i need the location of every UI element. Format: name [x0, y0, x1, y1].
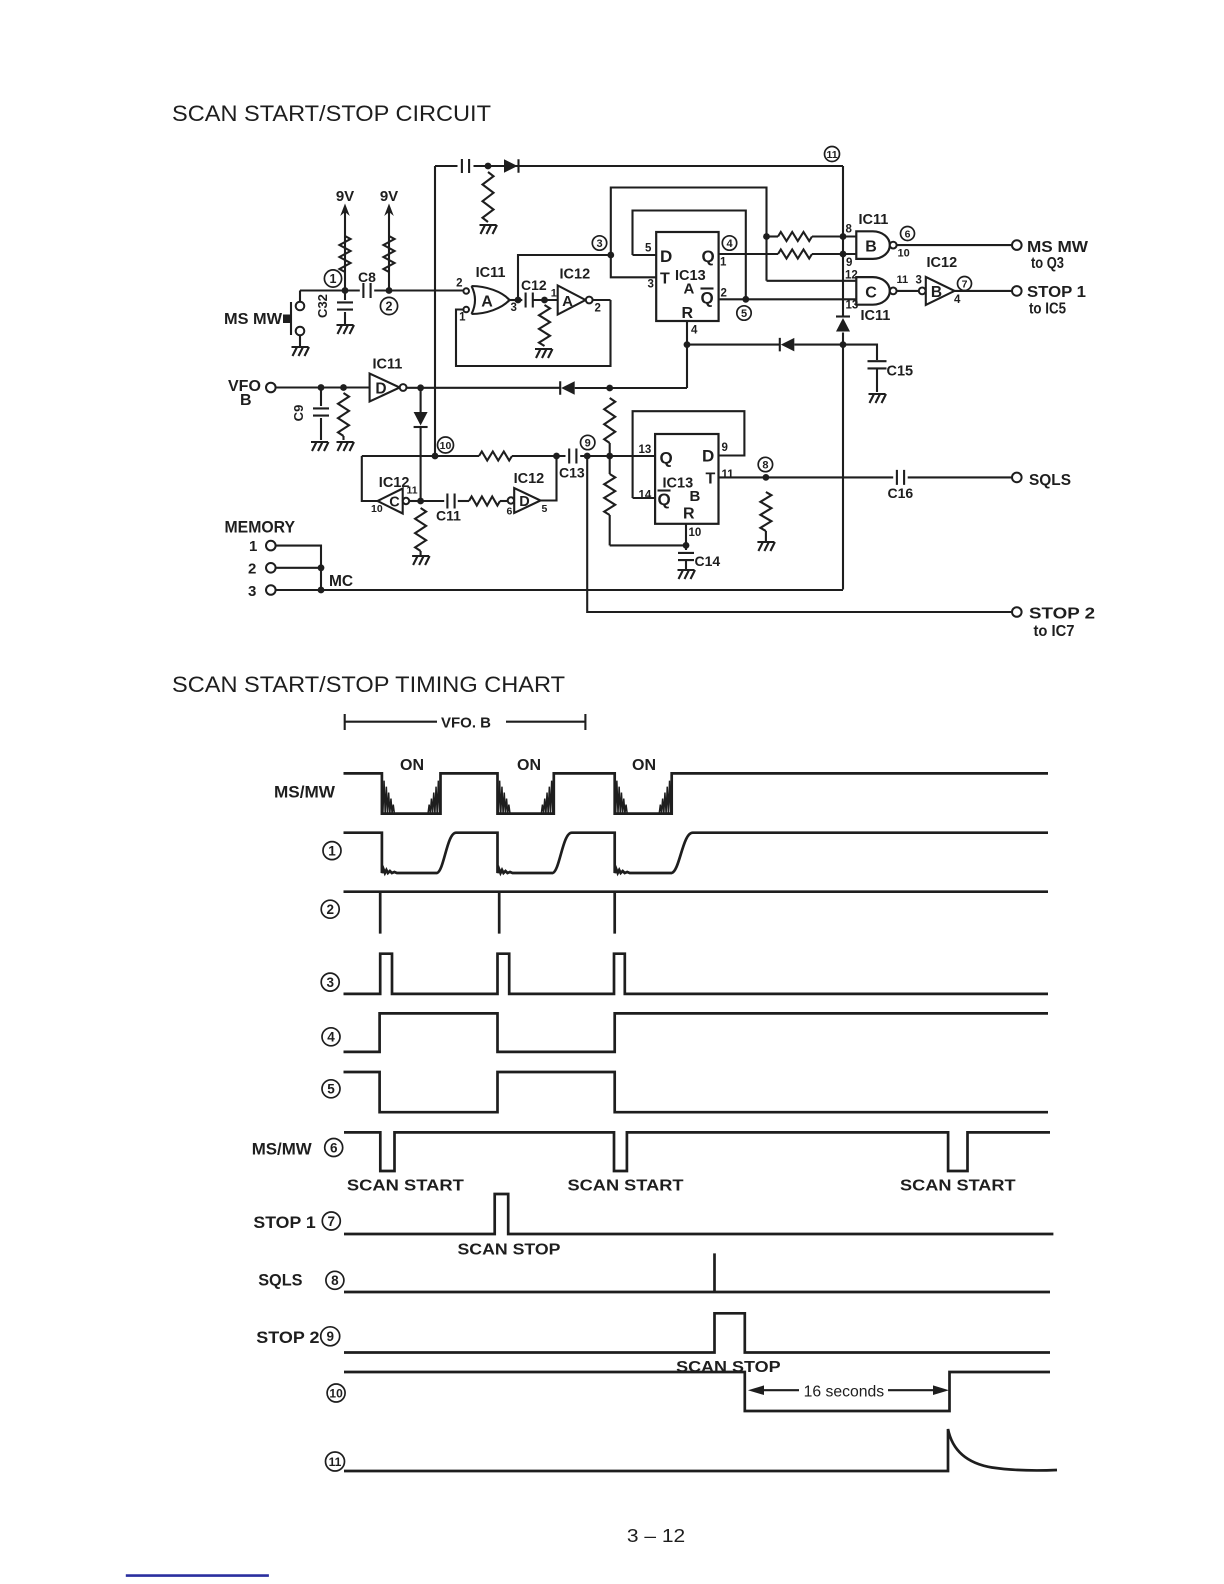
- row 9 circled label: [321, 1327, 340, 1346]
- svg-text:5: 5: [741, 308, 747, 320]
- wire left vertical from top rail down to node 10 line: [434, 166, 436, 456]
- svg-text:SQLS: SQLS: [258, 1271, 302, 1290]
- wire pin12 feed from riser: [767, 280, 857, 282]
- wire inverter A output right: [593, 299, 611, 301]
- svg-text:B: B: [931, 284, 942, 301]
- wire gate B output to MS MW terminal: [897, 244, 1012, 246]
- diode pointing left on row 2: [561, 381, 575, 395]
- svg-text:1: 1: [720, 257, 727, 269]
- svg-text:9: 9: [722, 442, 728, 454]
- svg-text:T: T: [660, 271, 670, 288]
- svg-text:Q: Q: [701, 289, 714, 308]
- ground below VFO resistor: [337, 442, 355, 451]
- node 2 circled label: [380, 297, 397, 314]
- diode pointing left on row 1: [781, 338, 795, 352]
- wire diode row 2 from IC11 D output: [406, 387, 559, 389]
- resistor to gate B pin 8: [778, 232, 812, 241]
- svg-text:8: 8: [846, 224, 853, 236]
- resistor from 9V supply 2: [384, 236, 395, 272]
- wire gate C to inverter IC12 B: [897, 290, 919, 292]
- svg-text:9V: 9V: [380, 188, 398, 205]
- svg-text:MC: MC: [329, 573, 353, 590]
- svg-text:9: 9: [846, 257, 852, 269]
- feedback wire Qbar to D of IC13 A: [633, 211, 746, 300]
- svg-text:3: 3: [248, 583, 256, 600]
- resistor in Q row (to pin 9): [778, 250, 812, 259]
- junction before C13: [553, 453, 560, 460]
- wire resistor to C13: [512, 455, 566, 457]
- row 2 circled label: [321, 900, 339, 918]
- svg-text:1: 1: [249, 538, 257, 555]
- svg-text:IC11: IC11: [861, 308, 891, 324]
- diode pointing down from IC11 D output: [420, 388, 422, 412]
- diode D1 on top rail (pointing right): [504, 159, 518, 173]
- node 11 circled label: [825, 147, 840, 162]
- svg-text:SCAN START: SCAN START: [900, 1178, 1016, 1195]
- terminal MS MW output: [1012, 240, 1022, 250]
- svg-text:D: D: [519, 494, 529, 510]
- ground below C9: [311, 442, 329, 451]
- resistor C11 to IC12 D: [469, 497, 500, 506]
- svg-text:IC12: IC12: [514, 471, 545, 487]
- wire top rail left segment: [435, 165, 458, 167]
- svg-text:4: 4: [726, 238, 733, 250]
- wire resistor to gate B pin 9: [812, 253, 856, 255]
- wire node 10 row start: [362, 455, 479, 457]
- row 1 circled label: [323, 842, 341, 860]
- waveform row MS/MW (top): [344, 773, 1049, 813]
- junction node 8: [763, 474, 770, 481]
- capacitor C16: [897, 470, 904, 485]
- svg-text:1: 1: [328, 844, 336, 859]
- wire vertical linking diode rows: [686, 345, 688, 388]
- svg-text:SCAN START: SCAN START: [568, 1178, 684, 1195]
- wire from C8 to gate IC11 A input: [374, 289, 463, 291]
- gate IC11 B body: [856, 231, 890, 259]
- node 7 circled label: [958, 277, 972, 291]
- svg-text:MS/MW: MS/MW: [274, 783, 336, 802]
- capacitor C9: [320, 388, 322, 407]
- resistor pull-down from top rail node: [483, 172, 494, 222]
- diode pointing up on column: [836, 318, 850, 332]
- svg-text:ON: ON: [632, 757, 656, 774]
- junction at pin 8: [840, 233, 847, 240]
- wire gate A output riser to node 3: [518, 255, 611, 300]
- svg-text:6: 6: [905, 228, 911, 240]
- waveform row 11: [344, 1429, 1057, 1471]
- ground below IC12 C resistor: [412, 556, 430, 565]
- switch MS MW: [299, 291, 301, 302]
- node 10 circled label: [438, 437, 454, 453]
- svg-text:5: 5: [327, 1082, 335, 1097]
- svg-text:VFO. B: VFO. B: [441, 715, 491, 732]
- svg-text:SCAN STOP: SCAN STOP: [676, 1359, 781, 1376]
- svg-text:3: 3: [916, 275, 922, 287]
- svg-text:SQLS: SQLS: [1029, 472, 1071, 489]
- svg-text:D: D: [660, 247, 672, 266]
- svg-text:ON: ON: [400, 757, 424, 774]
- junction node 9: [584, 453, 591, 460]
- svg-text:to IC7: to IC7: [1034, 623, 1075, 640]
- svg-text:C11: C11: [436, 508, 461, 524]
- wire switch to ground: [299, 336, 301, 348]
- svg-text:C15: C15: [887, 364, 914, 380]
- terminal VFO B: [266, 383, 276, 393]
- wire diode row 1 right portion: [794, 344, 843, 346]
- svg-text:3: 3: [596, 238, 602, 250]
- row 3 circled label: [321, 973, 339, 991]
- svg-text:SCAN START: SCAN START: [347, 1178, 464, 1195]
- svg-text:B: B: [690, 488, 701, 505]
- svg-text:ON: ON: [517, 757, 541, 774]
- svg-text:Q: Q: [658, 490, 671, 509]
- svg-text:2: 2: [386, 300, 393, 314]
- waveform row 2: [344, 892, 1049, 934]
- node 1 circled label: [324, 270, 341, 287]
- svg-text:to Q3: to Q3: [1031, 255, 1064, 272]
- capacitor on top rail: [462, 159, 469, 173]
- resistor on VFO B input: [338, 393, 349, 436]
- svg-text:SCAN STOP: SCAN STOP: [458, 1242, 561, 1259]
- wire node to C11: [421, 500, 445, 502]
- terminal STOP 2: [1012, 607, 1022, 617]
- node 3 circled label: [592, 236, 606, 250]
- node 6 circled label: [901, 227, 915, 241]
- svg-text:T: T: [706, 471, 716, 488]
- svg-text:A: A: [562, 293, 573, 310]
- svg-text:Q: Q: [660, 449, 673, 468]
- wire node 3 up and over to pin 12 riser: [611, 188, 767, 281]
- waveform row 3: [344, 954, 1049, 994]
- blue footer line: [126, 1574, 269, 1577]
- resistor pulldown IC12 C node: [415, 508, 426, 551]
- junction node at 9V-2: [386, 287, 393, 294]
- junction resistor tap on riser: [763, 233, 770, 240]
- junction Qbar feedback: [742, 296, 749, 303]
- svg-text:C9: C9: [291, 405, 306, 422]
- svg-text:D: D: [375, 381, 386, 398]
- row 5 circled label: [322, 1080, 340, 1098]
- wire D input of IC13 A: [633, 254, 657, 256]
- node 4 circled label: [722, 236, 736, 250]
- output node of gate A: [515, 297, 522, 304]
- capacitor C11: [447, 494, 454, 509]
- svg-text:MS MW: MS MW: [1027, 239, 1089, 256]
- svg-text:4: 4: [954, 294, 961, 306]
- svg-text:10: 10: [689, 527, 702, 539]
- resistor diode-row-2 to node 9 row: [604, 398, 615, 443]
- IC13 A box: [656, 232, 718, 321]
- node junction on top rail: [485, 163, 492, 170]
- svg-text:C32: C32: [315, 294, 330, 318]
- gate IC11 B output bubble: [890, 242, 897, 249]
- waveform row 9 STOP 2: [344, 1313, 1050, 1352]
- row 10 circled label: [327, 1384, 345, 1402]
- svg-text:6: 6: [507, 506, 513, 518]
- svg-text:C: C: [865, 285, 877, 302]
- gate IC11 C output bubble: [890, 288, 897, 295]
- wire C12 to inverter IC12 A: [533, 299, 558, 301]
- svg-text:10: 10: [898, 248, 910, 260]
- svg-text:3: 3: [648, 279, 654, 291]
- junction resistor column on node 9 row: [606, 453, 613, 460]
- gate IC11 A input bubbles: [463, 288, 469, 294]
- waveform row 10: [344, 1372, 1050, 1411]
- svg-text:4: 4: [691, 325, 698, 337]
- gate IC11 A body: [472, 286, 510, 314]
- wire MEMORY 3 to bus: [276, 589, 321, 591]
- node 9 circled label: [581, 435, 595, 449]
- wire MC line to main column: [321, 589, 843, 591]
- svg-text:MEMORY: MEMORY: [225, 519, 296, 537]
- capacitor C12: [526, 293, 533, 308]
- svg-text:STOP 1: STOP 1: [253, 1213, 315, 1232]
- wire R pin of IC13 B down: [685, 524, 687, 546]
- node 5 circled label: [737, 306, 751, 320]
- wire to capacitor C15: [843, 345, 877, 360]
- resistor below node 8: [760, 492, 771, 531]
- capacitor C8: [363, 283, 370, 298]
- svg-text:Q: Q: [702, 247, 715, 266]
- row 6 circled label: [325, 1139, 343, 1157]
- svg-text:2: 2: [595, 303, 601, 315]
- wire IC12 C output to node 10 box: [362, 456, 378, 501]
- svg-text:C12: C12: [521, 277, 547, 293]
- svg-text:STOP 2: STOP 2: [1029, 606, 1095, 623]
- feedback wire Qbar to D of IC13 B: [633, 411, 745, 498]
- wire C11 to resistor: [458, 500, 469, 502]
- capacitor C32: [344, 291, 346, 301]
- wire riser tap to resistor: [767, 235, 779, 237]
- svg-text:STOP 1: STOP 1: [1027, 284, 1086, 301]
- resistor from 9V supply 1: [340, 236, 351, 272]
- svg-text:3 – 12: 3 – 12: [627, 1526, 685, 1546]
- wire top rail right segment with node: [474, 165, 844, 167]
- ground below node 8 resistor: [757, 542, 775, 551]
- junction C9: [318, 384, 325, 391]
- ground below C32: [337, 325, 355, 334]
- svg-text:13: 13: [846, 300, 859, 312]
- svg-text:11: 11: [329, 1455, 342, 1469]
- 16 seconds arrows: [748, 1385, 764, 1395]
- inverter IC12 C input bubble: [403, 498, 409, 504]
- svg-text:16 seconds: 16 seconds: [804, 1384, 885, 1401]
- svg-text:3: 3: [326, 975, 334, 990]
- ground below switch: [292, 347, 310, 356]
- wire T output row to SQLS: [719, 476, 894, 478]
- row 8 circled label: [326, 1271, 344, 1289]
- wire node 3 down to T pin of IC13 A: [611, 255, 656, 277]
- 9V supply 1 arrow and wire: [344, 210, 346, 290]
- capacitor C14: [685, 545, 687, 550]
- svg-text:11: 11: [897, 274, 909, 286]
- row 4 circled label: [322, 1028, 340, 1046]
- svg-text:D: D: [702, 447, 714, 466]
- inverter IC11 D output bubble: [400, 384, 407, 391]
- ground below C14: [678, 570, 696, 579]
- wire MS MW input row: [300, 289, 360, 291]
- wire IC12 D output up to node 9 row: [541, 456, 557, 501]
- svg-text:13: 13: [639, 444, 652, 456]
- svg-text:STOP 2: STOP 2: [256, 1328, 319, 1347]
- 9V supply 2 arrow and wire: [388, 210, 390, 290]
- junction C14 node: [683, 542, 690, 549]
- svg-text:to IC5: to IC5: [1029, 301, 1066, 318]
- svg-text:10: 10: [371, 503, 383, 515]
- svg-text:SCAN START/STOP CIRCUIT: SCAN START/STOP CIRCUIT: [172, 101, 491, 126]
- junction VFO resistor: [340, 384, 347, 391]
- svg-text:1: 1: [459, 312, 466, 324]
- node 3 junction: [607, 252, 614, 259]
- svg-text:MS MW: MS MW: [224, 311, 283, 328]
- svg-text:C16: C16: [888, 485, 914, 501]
- svg-text:C14: C14: [695, 553, 721, 569]
- wire to C14 node: [610, 544, 686, 546]
- svg-text:IC11: IC11: [373, 357, 403, 373]
- svg-text:11: 11: [407, 485, 418, 497]
- svg-text:2: 2: [248, 561, 256, 578]
- svg-text:IC12: IC12: [560, 267, 591, 283]
- svg-text:C13: C13: [559, 465, 585, 481]
- wire MEMORY 2 to bus: [276, 567, 321, 569]
- waveform row 8 SQLS: [344, 1253, 1050, 1292]
- junction memory bus 2: [318, 564, 325, 571]
- junction oscillator node: [417, 498, 424, 505]
- inverter IC12 A body: [558, 286, 586, 315]
- wire diode row 2 right portion: [575, 387, 687, 389]
- svg-text:A: A: [684, 281, 695, 298]
- inverter IC11 D body: [370, 374, 400, 402]
- junction column with diode row: [840, 341, 847, 348]
- inverter IC12 D input bubble: [508, 497, 514, 503]
- noise spikes on MS/MW transitions: [383, 781, 671, 814]
- svg-text:R: R: [683, 506, 695, 523]
- capacitor C13: [569, 449, 576, 464]
- svg-text:IC11: IC11: [476, 265, 506, 281]
- svg-text:9: 9: [326, 1329, 334, 1344]
- junction top-rail column on node 10 row: [432, 453, 439, 460]
- terminal STOP 1: [1012, 286, 1022, 296]
- svg-text:2: 2: [456, 278, 462, 290]
- wire MEMORY 1 to bus: [276, 546, 321, 590]
- wire Q output of IC13 A to resistor row: [719, 253, 778, 255]
- feedback loop wire around IC11 A / IC12 A: [456, 300, 611, 366]
- svg-text:1: 1: [330, 272, 337, 286]
- svg-text:IC12: IC12: [379, 475, 410, 491]
- node 8 circled label: [758, 457, 772, 471]
- svg-text:11: 11: [722, 469, 735, 481]
- svg-text:B: B: [865, 239, 877, 256]
- svg-text:5: 5: [645, 243, 652, 255]
- svg-text:12: 12: [845, 270, 858, 282]
- wire node 11 vertical main column: [842, 166, 844, 590]
- inverter IC12 D body: [514, 488, 540, 513]
- resistor pulldown after C12: [539, 305, 550, 346]
- junction IC11 D output: [417, 384, 424, 391]
- svg-text:4: 4: [327, 1030, 335, 1045]
- svg-text:6: 6: [330, 1140, 338, 1155]
- svg-text:C8: C8: [358, 269, 376, 285]
- wire diode down to oscillator node: [420, 427, 422, 501]
- wire C13 to IC13 B pin 13: [580, 455, 655, 457]
- inverter IC12 B body: [926, 277, 955, 305]
- wire resistor to pin 8: [812, 235, 856, 237]
- inverter IC12 A output bubble: [586, 297, 593, 304]
- svg-text:2: 2: [721, 288, 727, 300]
- svg-text:IC12: IC12: [927, 255, 958, 271]
- svg-text:IC11: IC11: [859, 212, 889, 228]
- wire gate A output to C12: [510, 299, 523, 301]
- svg-text:R: R: [682, 305, 694, 322]
- row 7 circled label: [322, 1212, 340, 1230]
- wire resistor to IC12 D input: [500, 500, 508, 502]
- wire C16 to SQLS terminal: [908, 476, 1012, 478]
- inverter IC12 B input bubble: [919, 288, 926, 295]
- svg-text:2: 2: [326, 902, 334, 917]
- ground below top-rail resistor: [480, 225, 498, 234]
- wire IC12 C input to node: [409, 500, 420, 502]
- svg-text:B: B: [240, 392, 252, 409]
- node after C12: [541, 297, 548, 304]
- waveform row 6 MS/MW: [344, 1132, 1050, 1171]
- resistor node 9 row down to C14 row: [609, 456, 611, 474]
- svg-text:10: 10: [440, 440, 452, 452]
- svg-text:1: 1: [551, 288, 557, 300]
- svg-text:MS/MW: MS/MW: [252, 1140, 313, 1159]
- gate IC11 C body: [856, 277, 890, 305]
- capacitor C15: [868, 361, 887, 368]
- svg-text:9V: 9V: [336, 188, 354, 205]
- svg-text:7: 7: [328, 1214, 336, 1229]
- wire R pin of IC13 A down to diode row: [686, 321, 688, 345]
- row 11 circled label: [326, 1452, 345, 1471]
- ground below C12 resistor: [535, 349, 553, 358]
- waveform row 1: [344, 833, 1049, 873]
- junction node at 9V-1 / C32: [342, 287, 349, 294]
- svg-text:3: 3: [511, 302, 517, 314]
- resistor on node 10 row: [479, 452, 512, 461]
- junction R pin row: [684, 341, 691, 348]
- junction at pin 9 column: [840, 251, 847, 258]
- svg-text:8: 8: [331, 1273, 339, 1288]
- wire VFO B to inverter IC11 D: [276, 386, 370, 388]
- svg-text:7: 7: [962, 278, 968, 290]
- waveform row 7 STOP 1: [344, 1194, 1053, 1234]
- svg-text:5: 5: [542, 503, 548, 515]
- inverter IC12 C body (pointing left): [378, 489, 403, 514]
- ground below C15: [869, 394, 887, 403]
- junction on diode row 2: [606, 385, 613, 392]
- wire diode row 1: [687, 344, 780, 346]
- svg-text:14: 14: [639, 490, 652, 502]
- junction memory bus 3: [318, 587, 325, 594]
- svg-text:10: 10: [329, 1386, 343, 1400]
- IC13 B box: [655, 434, 718, 524]
- svg-text:SCAN START/STOP TIMING CHAR: SCAN START/STOP TIMING CHART: [172, 672, 565, 697]
- wire inverter B output to STOP 1 terminal: [955, 290, 1013, 292]
- svg-text:C: C: [389, 495, 400, 511]
- wire node 9 down to STOP 2 line: [587, 456, 1012, 612]
- svg-text:A: A: [481, 294, 493, 311]
- svg-text:11: 11: [826, 149, 837, 161]
- terminal SQLS: [1012, 473, 1022, 483]
- VFO.B bracket: [345, 714, 586, 730]
- waveform row 5: [344, 1072, 1049, 1112]
- svg-text:8: 8: [762, 460, 768, 472]
- svg-text:9: 9: [585, 438, 591, 450]
- wire Qbar output of IC13 A to gate C pin 13: [719, 298, 857, 300]
- waveform row 4: [344, 1013, 1049, 1052]
